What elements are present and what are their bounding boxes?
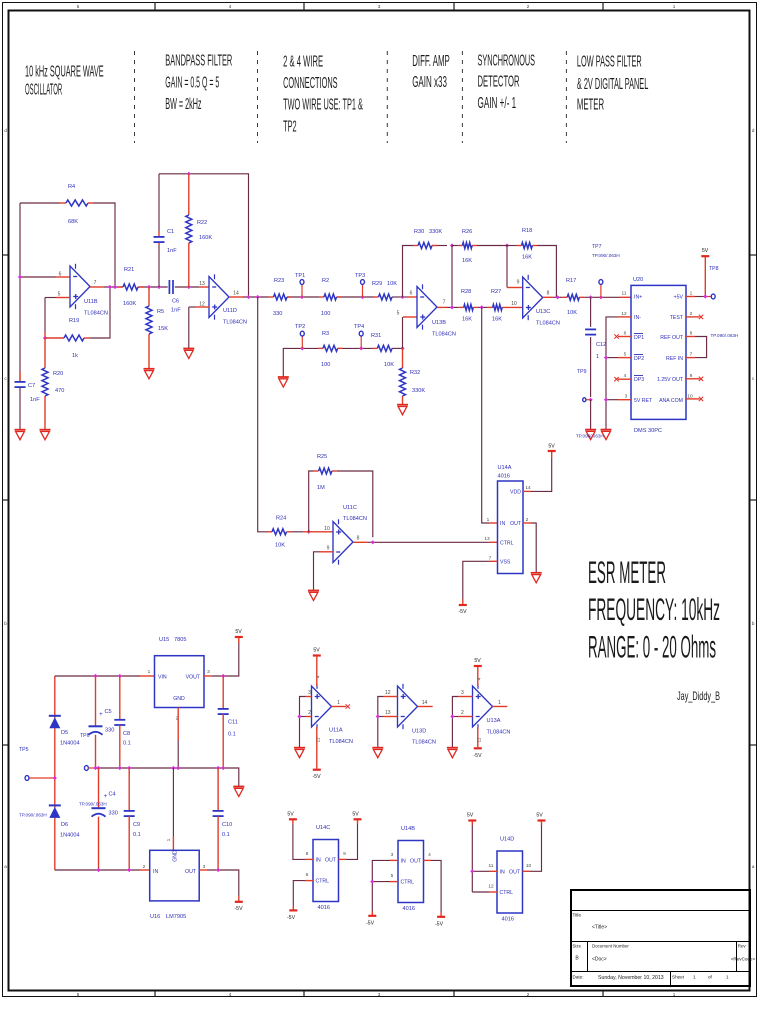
svg-text:TP2: TP2 [295, 324, 305, 330]
svg-text:16K: 16K [462, 317, 472, 323]
capacitor C12 [590, 297, 592, 327]
junction C11 top [221, 674, 225, 678]
wire U14B OUT to -5V [424, 859, 432, 861]
svg-text:1: 1 [673, 4, 676, 9]
svg-text:R22: R22 [197, 220, 207, 226]
regulator U16 LM7905 [150, 850, 200, 901]
svg-text:2: 2 [461, 710, 464, 716]
svg-text:13: 13 [199, 281, 205, 287]
junctions U20 gnd net [604, 356, 608, 360]
svg-text:<Title>: <Title> [592, 925, 607, 931]
junction U13D inputs [376, 714, 380, 718]
svg-text:IN+: IN+ [634, 295, 642, 301]
wire net output row1: pin7 to R21/C1/C6/U11D pin13 [90, 286, 104, 288]
wire net R4.2 to pin7 node [93, 203, 115, 287]
svg-text:DETECTOR: DETECTOR [478, 74, 520, 91]
wire U14C CTRL to -5V [305, 880, 313, 882]
wire VOUT net to 5V [204, 675, 212, 677]
svg-text:R32: R32 [410, 370, 420, 376]
op-amp U13A [473, 686, 493, 727]
svg-text:LOW PASS FILTER: LOW PASS FILTER [577, 53, 642, 70]
wire U14A OUT to ground [523, 522, 531, 524]
svg-text:1M: 1M [317, 485, 325, 491]
svg-text:16K: 16K [522, 255, 532, 261]
wire ground bus [96, 768, 239, 787]
svg-text:U13B: U13B [432, 320, 446, 326]
resistor R20 [44, 338, 46, 368]
svg-text:TP.090/.063H: TP.090/.063H [79, 802, 107, 807]
svg-text:14: 14 [233, 291, 239, 297]
junction R28/R27 node [480, 305, 484, 309]
junction TP5 [53, 776, 57, 780]
wire U16 OUT to -5V [199, 869, 207, 871]
svg-text:1nF: 1nF [167, 248, 177, 254]
svg-text:330: 330 [105, 728, 114, 734]
svg-text:9: 9 [517, 280, 520, 286]
svg-text:R26: R26 [462, 229, 472, 235]
no-connect DP3 [618, 378, 631, 380]
svg-text:TP9: TP9 [577, 369, 587, 375]
ground U13D [372, 747, 383, 749]
svg-text:R17: R17 [566, 278, 576, 284]
svg-text:14: 14 [422, 700, 428, 706]
svg-text:U14A: U14A [498, 465, 512, 471]
svg-text:<RevCode>: <RevCode> [731, 957, 756, 962]
svg-text:11: 11 [622, 291, 627, 297]
wire VIN rail [54, 676, 56, 870]
wire net row B: U11D out / R23 / TP1 / R2 / TP3 / R29 / U13B pin6 [229, 296, 243, 298]
capacitor C10 0.1 [217, 768, 219, 811]
svg-text:<Doc>: <Doc> [592, 957, 607, 963]
svg-text:6: 6 [624, 331, 627, 337]
header separator 3 [386, 51, 388, 143]
svg-text:RANGE: 0 - 20 Ohms: RANGE: 0 - 20 Ohms [588, 629, 716, 665]
svg-text:8: 8 [306, 851, 309, 857]
svg-text:R21: R21 [124, 267, 134, 273]
junction pin6 node [18, 275, 22, 279]
svg-text:U11B: U11B [84, 299, 98, 305]
svg-text:330: 330 [273, 311, 282, 317]
svg-text:Sunday, November 10, 2013: Sunday, November 10, 2013 [598, 975, 664, 981]
wire U13C pin9 net [506, 246, 508, 288]
svg-text:OUT: OUT [410, 858, 422, 864]
svg-text:IN: IN [500, 521, 505, 527]
svg-text:C9: C9 [133, 822, 140, 828]
svg-text:330: 330 [109, 811, 118, 817]
svg-text:10: 10 [526, 863, 532, 869]
header separator 2 [257, 51, 259, 143]
svg-text:10K: 10K [387, 281, 397, 287]
svg-text:R29: R29 [372, 281, 382, 287]
svg-text:CTRL: CTRL [401, 880, 415, 886]
wire U11C pin9 to ground [320, 551, 333, 553]
svg-text:C7: C7 [28, 383, 35, 389]
svg-text:8: 8 [357, 536, 360, 542]
power 5V supply [235, 636, 243, 638]
power wires U11A [316, 657, 318, 686]
wire R28 node to U14A IN [482, 307, 489, 523]
resistor R4 [60, 202, 66, 204]
wire net U11B pin6 / R4 / C7 [19, 203, 21, 381]
svg-text:5V: 5V [235, 629, 242, 635]
svg-text:DP2: DP2 [634, 356, 644, 362]
junctions VIN rail [93, 674, 97, 678]
wire C12 to ground [590, 400, 592, 430]
svg-text:4: 4 [624, 373, 627, 379]
svg-text:U14B: U14B [401, 826, 415, 832]
wire long vertical to U11C section [258, 297, 268, 532]
svg-text:REF IN: REF IN [666, 356, 683, 362]
svg-text:R19: R19 [69, 318, 79, 324]
capacitor C9 0.1 [128, 768, 130, 811]
svg-text:9: 9 [343, 851, 346, 857]
svg-text:TP.090/.063H: TP.090/.063H [19, 813, 47, 818]
junction U13C out / R18 fb [556, 295, 560, 299]
svg-text:BANDPASS FILTER: BANDPASS FILTER [165, 53, 232, 70]
svg-text:10K: 10K [567, 310, 577, 316]
svg-text:TP.090/.063H: TP.090/.063H [592, 253, 620, 258]
svg-text:100: 100 [321, 362, 330, 368]
svg-text:3: 3 [308, 690, 311, 696]
power 5V TP8 [701, 255, 709, 257]
wire U11D pin12 to ground [196, 306, 209, 308]
op-amp U13C [523, 277, 543, 318]
svg-text:3: 3 [391, 852, 394, 858]
resistor R22 [188, 174, 190, 215]
svg-text:R31: R31 [371, 333, 381, 339]
wire U11A inputs to ground [306, 696, 312, 698]
svg-text:Jay_Diddy_B: Jay_Diddy_B [677, 689, 720, 703]
svg-text:2: 2 [527, 992, 530, 997]
svg-text:IN: IN [500, 869, 505, 875]
svg-text:5: 5 [397, 311, 400, 317]
svg-text:VIN: VIN [158, 675, 167, 681]
op-amp U11C [333, 522, 353, 563]
svg-text:U13A: U13A [487, 718, 501, 724]
svg-text:1: 1 [337, 700, 340, 706]
svg-text:1: 1 [673, 992, 676, 997]
ground U11D pin12 [183, 348, 194, 350]
svg-text:R23: R23 [274, 278, 284, 284]
wire U14C OUT to 5V [339, 858, 347, 860]
svg-text:D6: D6 [61, 822, 68, 828]
svg-text:4016: 4016 [318, 905, 330, 911]
wire negative rail [55, 869, 140, 871]
svg-text:5V: 5V [536, 813, 543, 819]
wire U13C output node [543, 296, 553, 298]
junction U14B ctrl [370, 880, 374, 884]
svg-text:-5V: -5V [234, 906, 243, 912]
wire U11A output [332, 706, 347, 708]
svg-text:-5V: -5V [312, 774, 321, 780]
wire U15 GND to bus [177, 708, 179, 741]
svg-text:4: 4 [428, 852, 431, 858]
svg-text:100: 100 [321, 311, 330, 317]
svg-text:9: 9 [327, 546, 330, 552]
svg-text:U13D: U13D [412, 729, 426, 735]
svg-text:GAIN +/- 1: GAIN +/- 1 [478, 95, 517, 112]
svg-text:SYNCHRONOUS: SYNCHRONOUS [478, 53, 536, 70]
svg-text:CTRL: CTRL [500, 890, 514, 896]
wire U13D output [418, 706, 433, 708]
ground bus symbol [233, 786, 244, 788]
svg-text:TP3: TP3 [355, 273, 365, 279]
wire U13A output [493, 706, 508, 708]
svg-text:d: d [4, 128, 7, 133]
svg-text:C4: C4 [109, 792, 116, 798]
svg-text:2: 2 [527, 4, 530, 9]
svg-text:OUT: OUT [510, 521, 522, 527]
test point TP2 [301, 336, 303, 348]
op-amp U13D [398, 686, 418, 727]
svg-text:d: d [752, 128, 755, 133]
svg-text:4016: 4016 [498, 474, 510, 480]
svg-text:TL084CN: TL084CN [343, 516, 367, 522]
op-amp U11D [209, 277, 229, 318]
svg-text:GND: GND [173, 850, 179, 862]
capacitor C8 0.1 [119, 676, 121, 720]
svg-text:TP2: TP2 [283, 118, 297, 135]
svg-text:TL084CN: TL084CN [487, 730, 511, 736]
junctions row1 [108, 285, 112, 289]
no-connect ANA COM [686, 398, 700, 400]
wire U20 IN- / DP2 / 5V RET to ground [618, 316, 631, 318]
svg-text:OUT: OUT [509, 869, 521, 875]
regulator U15 7805 [155, 656, 205, 708]
svg-text:R30: R30 [414, 229, 424, 235]
svg-text:1N4004: 1N4004 [60, 833, 80, 839]
svg-text:a: a [4, 864, 7, 869]
svg-text:10: 10 [324, 526, 330, 532]
wire net U11B pin5 / R19.1 / R20.1 [56, 297, 70, 299]
svg-text:TP4: TP4 [354, 324, 364, 330]
svg-text:b: b [752, 621, 755, 626]
svg-text:2: 2 [143, 864, 146, 870]
resistor R19 [45, 337, 64, 339]
resistor R29 [374, 296, 379, 298]
svg-text:Title: Title [573, 913, 582, 918]
diode D5 1N4004 [49, 715, 61, 717]
svg-text:5V: 5V [474, 658, 481, 664]
resistor R2 [319, 296, 324, 298]
capacitor C5 330 [95, 676, 97, 726]
svg-text:& 2V DIGITAL PANEL: & 2V DIGITAL PANEL [577, 76, 648, 93]
capacitor C7 [15, 381, 26, 383]
power -5V U14A [459, 604, 467, 606]
junctions row2 [300, 346, 304, 350]
junction U11C out / R25 [371, 540, 375, 544]
svg-text:TP.090/.063H: TP.090/.063H [711, 333, 739, 338]
wire pin10 net [304, 531, 333, 533]
svg-text:C1: C1 [167, 229, 174, 235]
svg-text:1nF: 1nF [171, 308, 181, 314]
header separator 1 [134, 51, 136, 143]
svg-text:11: 11 [489, 863, 494, 869]
ground TP9 net [585, 429, 596, 431]
power wires U13A [477, 667, 479, 686]
resistor R5 [148, 287, 150, 306]
svg-text:11: 11 [316, 737, 321, 742]
svg-text:7: 7 [94, 280, 97, 286]
svg-text:GAIN = 0.5 Q = 5: GAIN = 0.5 Q = 5 [165, 75, 219, 92]
svg-text:4016: 4016 [502, 917, 514, 923]
wire U14D OUT to 5V [523, 870, 531, 872]
svg-text:R18: R18 [522, 228, 532, 234]
svg-text:Rev: Rev [738, 944, 747, 949]
svg-text:1k: 1k [72, 353, 78, 359]
svg-text:TP6: TP6 [80, 733, 90, 739]
junctions negative rail [96, 868, 100, 872]
svg-text:1: 1 [693, 975, 696, 980]
svg-text:15K: 15K [158, 326, 168, 332]
svg-text:GAIN x33: GAIN x33 [412, 74, 447, 91]
capacitor C1 [158, 245, 160, 287]
svg-text:4: 4 [229, 992, 232, 997]
wire U14D IN+CTRL to 5V [489, 870, 497, 872]
svg-text:13: 13 [385, 710, 391, 716]
wire REF OUT to REF IN [686, 336, 695, 338]
test point TP8 [711, 294, 715, 299]
svg-text:R20: R20 [53, 371, 63, 377]
svg-text:-5V: -5V [287, 915, 296, 921]
resistor R28 [459, 306, 464, 308]
svg-text:U14C: U14C [316, 825, 330, 831]
svg-text:3: 3 [461, 690, 464, 696]
svg-text:U20: U20 [633, 277, 643, 283]
junctions R17/C12/TP7 [589, 295, 593, 299]
svg-text:1: 1 [148, 669, 151, 675]
svg-text:3: 3 [378, 992, 381, 997]
U20 DP overbars [634, 333, 643, 335]
ground C7 [19, 388, 21, 430]
switch U14C 4016 [313, 840, 339, 902]
svg-text:3: 3 [625, 394, 628, 400]
junction +5V [703, 294, 707, 298]
svg-text:11: 11 [477, 737, 482, 742]
ground U14A OUT [531, 572, 542, 574]
svg-text:5: 5 [624, 352, 627, 358]
svg-text:160K: 160K [199, 235, 212, 241]
diode D6 1N4004 [49, 804, 61, 806]
svg-text:FREQUENCY: 10kHz: FREQUENCY: 10kHz [588, 591, 720, 627]
wire U14C IN to 5V [305, 858, 313, 860]
svg-text:DP1: DP1 [634, 335, 644, 341]
switch U14B 4016 [398, 841, 424, 903]
ground U11A [294, 747, 305, 749]
svg-text:5V RET: 5V RET [634, 398, 653, 404]
svg-text:2: 2 [308, 710, 311, 716]
power -5V supply [235, 901, 243, 903]
junction U14D in [470, 869, 474, 873]
test point TP7 [600, 285, 602, 298]
svg-text:C11: C11 [228, 720, 238, 726]
svg-text:U15: U15 [159, 637, 169, 643]
capacitor C11 0.1 [222, 676, 224, 709]
resistor R17 [562, 296, 567, 298]
wire top feedback net [159, 174, 249, 297]
svg-text:OUT: OUT [185, 869, 197, 875]
svg-text:6: 6 [59, 272, 62, 278]
svg-text:7: 7 [443, 300, 446, 306]
wire U13D inputs to ground [384, 696, 398, 698]
resistor R31 [373, 347, 378, 349]
svg-text:TP1: TP1 [295, 273, 305, 279]
wire R30 feedback net [403, 246, 414, 298]
svg-text:-5V: -5V [458, 609, 467, 615]
svg-text:C6: C6 [172, 299, 179, 305]
svg-text:2: 2 [690, 311, 693, 317]
wire U14B IN+CTRL to -5V [390, 859, 398, 861]
svg-text:U11A: U11A [329, 728, 343, 734]
svg-text:METER: METER [577, 97, 604, 114]
svg-text:VOUT: VOUT [186, 675, 201, 681]
svg-text:8: 8 [690, 331, 693, 337]
svg-text:TEST: TEST [670, 315, 684, 321]
op-amp U13B [417, 287, 437, 328]
svg-text:TL084CN: TL084CN [329, 739, 353, 745]
resistor R32 [402, 348, 404, 368]
svg-text:IN-: IN- [634, 315, 641, 321]
svg-text:ANA COM: ANA COM [659, 398, 683, 404]
wire U11C out to U14A CTRL [353, 541, 368, 543]
svg-text:R24: R24 [276, 516, 286, 522]
svg-text:U11D: U11D [223, 308, 237, 314]
svg-text:12: 12 [385, 690, 391, 696]
ground U13A [447, 747, 458, 749]
svg-text:C12: C12 [596, 342, 606, 348]
svg-text:U16: U16 [150, 914, 160, 920]
svg-text:+: + [99, 711, 103, 718]
svg-text:DIFF. AMP: DIFF. AMP [412, 53, 450, 70]
junction R24/R25/pin10 [307, 530, 311, 534]
wire U16 GND to bus [172, 768, 174, 836]
wire net row2: gnd / TP2 / R3 / TP4 / R31 [283, 348, 318, 377]
wire U14A VDD to 5V [523, 490, 531, 492]
svg-text:CTRL: CTRL [500, 540, 514, 546]
svg-text:R5: R5 [157, 309, 164, 315]
capacitor C6 [168, 280, 170, 294]
junction TP9 [589, 398, 593, 402]
svg-text:R28: R28 [461, 289, 471, 295]
wire R19.2 up to output node [90, 287, 110, 338]
svg-text:ESR METER: ESR METER [588, 554, 666, 590]
resistor R27 [488, 306, 493, 308]
svg-text:4: 4 [229, 4, 232, 9]
svg-text:0.1: 0.1 [123, 741, 131, 747]
svg-text:TP.090/.063H: TP.090/.063H [576, 434, 604, 439]
svg-text:R25: R25 [317, 454, 327, 460]
svg-text:TL084CN: TL084CN [223, 320, 247, 326]
svg-text:1: 1 [498, 700, 501, 706]
power 5V U14A [548, 450, 556, 452]
junctions row B [246, 295, 250, 299]
svg-text:Document Number: Document Number [592, 944, 629, 949]
test point TP9 [583, 398, 586, 402]
svg-text:0.1: 0.1 [222, 832, 230, 838]
svg-text:3: 3 [378, 4, 381, 9]
svg-text:16K: 16K [462, 258, 472, 264]
svg-text:b: b [4, 621, 7, 626]
junction U13A inputs [450, 714, 454, 718]
junction R30/R26 node [450, 243, 454, 247]
ground R20 [40, 429, 51, 431]
svg-text:1: 1 [487, 517, 490, 523]
IC U20 DMS 30PC [631, 285, 686, 419]
svg-text:3: 3 [203, 864, 206, 870]
svg-text:OSCILLATOR: OSCILLATOR [25, 82, 62, 99]
switch U14D 4016 [497, 851, 523, 913]
svg-text:10K: 10K [384, 362, 394, 368]
